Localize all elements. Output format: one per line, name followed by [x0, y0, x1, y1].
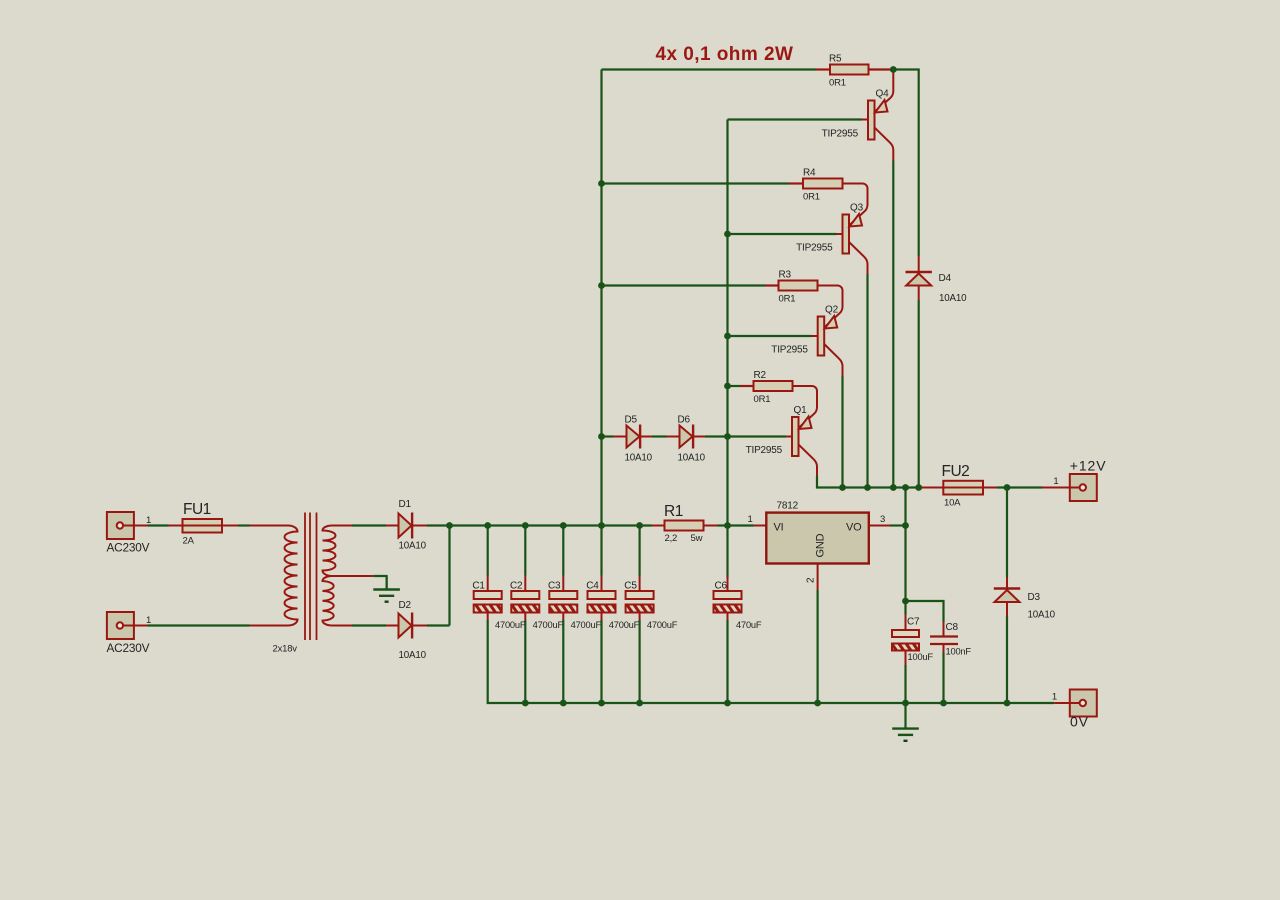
wire C5 lower [638, 620, 640, 703]
junction at (1007,487.5) [1004, 484, 1011, 491]
svg-text:1: 1 [146, 515, 151, 526]
capacitor C6 470uF [714, 581, 762, 631]
wire transformer primary bottom pin [250, 625, 289, 627]
wire C3 lower [562, 620, 564, 703]
wire C2 upper [524, 526, 526, 576]
transistor Q4 TIP2955 [822, 89, 889, 140]
svg-text:D2: D2 [399, 600, 412, 611]
wire Q1 collector to output bus [817, 476, 921, 488]
wire Q3 emitter [0, 0, 1, 1]
svg-text:C6: C6 [715, 581, 728, 592]
capacitor C3 4700uF [548, 581, 601, 631]
svg-text:Q1: Q1 [794, 405, 808, 416]
svg-text:AC230V: AC230V [107, 541, 150, 555]
svg-text:Q2: Q2 [825, 305, 839, 316]
svg-text:2,2: 2,2 [665, 533, 678, 544]
svg-text:C3: C3 [548, 581, 561, 592]
svg-text:D4: D4 [939, 273, 952, 284]
svg-text:VI: VI [774, 522, 784, 534]
wire D3 pins [1006, 577, 1008, 617]
junction at (601.5,183.5) [598, 180, 605, 187]
junction at (449.5,525.5) [446, 522, 453, 529]
wire +12V terminal pin [1042, 487, 1070, 489]
wire Q1 collector [799, 445, 818, 477]
transistor Q1 TIP2955 [746, 405, 812, 456]
wire C4 lower [600, 620, 602, 703]
svg-text:C8: C8 [946, 622, 959, 633]
svg-text:100uF: 100uF [908, 652, 934, 662]
wire D1 cathode to bus [427, 524, 450, 526]
wire C3 upper [562, 526, 564, 576]
wire R1 output to 7812 VI [718, 524, 754, 526]
svg-text:GND: GND [815, 533, 827, 557]
svg-text:10A10: 10A10 [399, 650, 427, 661]
wire R3 pins [765, 286, 843, 328]
diode D6 [678, 415, 706, 464]
wire 7812 VI pin [754, 525, 767, 527]
svg-text:10A10: 10A10 [399, 541, 427, 552]
wire main input bus [450, 524, 652, 526]
junction at (525.3,703) [522, 700, 529, 707]
capacitor C7 100uF [892, 617, 933, 663]
junction at (601.5,436.5) [598, 433, 605, 440]
junction at (905.5,601) [902, 598, 909, 605]
wire FU1 pins [169, 525, 239, 527]
junction at (842.5,487.5) [839, 484, 846, 491]
wire D6 to Q1 base [705, 435, 786, 437]
wire raw-input vertical x=601.5 [600, 70, 602, 526]
junction at (563.3,525.5) [560, 522, 567, 529]
wire C5 pins [639, 576, 641, 621]
wire top rail net (R5 input rail) [602, 68, 817, 70]
wire D5 pins [614, 436, 653, 438]
terminal +12V [1053, 458, 1106, 502]
wire rectifier vertical [448, 526, 450, 626]
junction at (727.5,436.5) [724, 433, 731, 440]
wire AC2 terminal pin [134, 625, 148, 627]
junction at (639.6,703) [636, 700, 643, 707]
wire C1 upper [487, 526, 489, 576]
wire AC2 to transformer [148, 624, 250, 626]
junction at (905.5,487.5) [902, 484, 909, 491]
wire 7812 GND pin [817, 564, 819, 591]
wire Q3 base [728, 233, 837, 235]
wire C6 pins [727, 576, 729, 621]
wire Q4 base pin [862, 119, 868, 121]
wire C2 pins [524, 576, 526, 621]
junction at (727.5,234) [724, 231, 731, 238]
svg-text:D5: D5 [625, 415, 638, 426]
wire Q2 base [728, 335, 812, 337]
wire base rail vertical x=727.5 [726, 120, 728, 526]
wire ground bus bottom [488, 620, 1055, 703]
svg-text:R5: R5 [829, 54, 842, 65]
diode D3 [994, 589, 1056, 621]
junction at (867.5,487.5) [864, 484, 871, 491]
transformer TR1 2x18v [273, 513, 336, 655]
junction at (918.7,487.5) [915, 484, 922, 491]
wire R3 input [602, 284, 766, 286]
wire secondary bottom to D2 [352, 624, 386, 626]
wire FU1 to transformer [238, 524, 250, 526]
junction at (893.3,487.5) [890, 484, 897, 491]
wire C5 upper [638, 526, 640, 576]
svg-text:D6: D6 [678, 415, 691, 426]
svg-text:1: 1 [146, 615, 151, 626]
svg-text:1: 1 [748, 514, 753, 525]
svg-text:10A: 10A [944, 498, 961, 509]
terminal AC230V bottom [107, 612, 152, 655]
terminal AC230V top [107, 512, 152, 555]
svg-text:10A10: 10A10 [1028, 610, 1056, 621]
wire C3 pins [562, 576, 564, 621]
wire D5-D6 link [652, 435, 667, 437]
wire C1 pins [487, 576, 489, 621]
junction at (727.5,703) [724, 700, 731, 707]
resistor R1 [664, 503, 704, 544]
fuse FU1 [183, 501, 223, 547]
svg-text:100nF: 100nF [946, 647, 972, 657]
svg-text:FU1: FU1 [183, 501, 211, 518]
junction at (601.5,703) [598, 700, 605, 707]
svg-text:4700uF: 4700uF [495, 620, 526, 630]
wire 0V terminal pin [1054, 702, 1070, 704]
wire Q1 base pin [786, 436, 792, 438]
wire D1 pins [386, 525, 427, 527]
svg-text:2: 2 [806, 577, 817, 583]
wire R4 pins [789, 184, 868, 226]
transistor Q2 TIP2955 [771, 305, 838, 356]
wire D4 cathode rail down [918, 300, 920, 488]
svg-text:R2: R2 [754, 370, 767, 381]
svg-text:1: 1 [1052, 692, 1057, 703]
svg-text:2x18v: 2x18v [273, 644, 298, 655]
svg-text:Q3: Q3 [850, 203, 864, 214]
svg-text:C4: C4 [586, 581, 599, 592]
wire C8 lower [942, 653, 944, 704]
svg-text:C2: C2 [510, 581, 523, 592]
wire D3 lower [1006, 617, 1008, 704]
svg-text:D3: D3 [1028, 592, 1041, 603]
resistor R3 [779, 270, 818, 305]
svg-text:D1: D1 [399, 499, 412, 510]
wire 7812 VO to output node [890, 524, 906, 526]
wire Q1 emitter [0, 0, 1, 1]
svg-text:FU2: FU2 [942, 463, 970, 480]
svg-text:0R1: 0R1 [829, 78, 846, 89]
regulator U1 7812 [748, 501, 886, 584]
junction at (727.5,386) [724, 383, 731, 390]
wire transformer primary top pin [250, 525, 289, 527]
junction at (563.3,703) [560, 700, 567, 707]
wire R4 input [602, 182, 790, 184]
resistor R2 [754, 370, 793, 405]
capacitor C5 4700uF [624, 581, 677, 631]
diode D2 [399, 600, 427, 661]
wire Q3 collector [849, 242, 868, 274]
junction at (727.5,336) [724, 333, 731, 340]
svg-text:1: 1 [1053, 476, 1058, 487]
wire C7 lower [904, 665, 906, 703]
junction at (487.7,525.5) [484, 522, 491, 529]
junction at (1007,703) [1004, 700, 1011, 707]
resistor R5 [829, 54, 869, 89]
wire AC1 link [148, 524, 169, 526]
wire Q4 base [728, 118, 863, 120]
capacitor C1 4700uF [472, 581, 525, 631]
wire C2 lower [524, 620, 526, 703]
wire C7-C8 jumper [906, 601, 944, 622]
svg-text:VO: VO [846, 522, 862, 534]
diode D4 [906, 272, 968, 304]
svg-text:0R1: 0R1 [779, 294, 796, 305]
svg-text:C1: C1 [472, 581, 485, 592]
ground main [892, 703, 919, 741]
svg-text:4x 0,1 ohm 2W: 4x 0,1 ohm 2W [656, 44, 794, 65]
wire FU2 to +12V terminal [997, 486, 1042, 488]
title text 4x 0,1 ohm 2W [656, 44, 794, 65]
svg-text:7812: 7812 [777, 501, 799, 512]
wire D5 anode [602, 435, 614, 437]
junction at (525.3,525.5) [522, 522, 529, 529]
wire Q2 collector [824, 344, 842, 376]
junction at (893.3,69.5) [890, 66, 897, 73]
svg-text:R3: R3 [779, 270, 792, 281]
svg-text:4700uF: 4700uF [571, 620, 602, 630]
diode D5 [625, 415, 653, 464]
fuse FU2 [942, 463, 984, 509]
svg-text:0R1: 0R1 [803, 192, 820, 203]
wire R5 output to corner [893, 70, 918, 257]
svg-text:C5: C5 [624, 581, 637, 592]
wire 7812 VO pin [869, 525, 890, 527]
wire R2 input [728, 385, 741, 387]
junction at (639.6,525.5) [636, 522, 643, 529]
resistor R4 [803, 168, 843, 203]
svg-text:+12V: +12V [1070, 458, 1107, 474]
wire R2 pins [740, 386, 817, 428]
svg-text:TIP2955: TIP2955 [822, 129, 859, 140]
wire C6 upper [726, 526, 728, 579]
svg-text:Q4: Q4 [876, 89, 890, 100]
wire Q2 base pin [812, 335, 818, 337]
svg-text:TIP2955: TIP2955 [796, 243, 833, 254]
wire 7812 GND lower [816, 590, 818, 703]
svg-text:4700uF: 4700uF [533, 620, 564, 630]
wire output vertical x=905.5 [904, 488, 906, 615]
svg-text:4700uF: 4700uF [647, 620, 678, 630]
junction at (601.5,285.5) [598, 282, 605, 289]
svg-text:4700uF: 4700uF [609, 620, 640, 630]
svg-text:470uF: 470uF [736, 620, 762, 630]
wire secondary top to D1 [352, 524, 386, 526]
svg-text:10A10: 10A10 [678, 453, 706, 464]
wire Q3 base pin [837, 233, 843, 235]
wire R1 pins [652, 525, 718, 527]
junction at (943.5,703) [940, 700, 947, 707]
junction at (905.5,525.5) [902, 522, 909, 529]
svg-text:R1: R1 [664, 503, 683, 520]
wire D3 upper [1006, 488, 1008, 578]
wire transformer secondary bottom pin [331, 625, 352, 627]
wire D2 pins [386, 625, 427, 627]
wire transformer center tap pin [331, 575, 373, 577]
wire Q4 emitter [875, 70, 894, 112]
wire Q3 collector down [866, 274, 868, 488]
wire Q4 collector down [892, 161, 894, 488]
wire C7 pins [905, 615, 907, 666]
junction at (601.5,525.5) [598, 522, 605, 529]
junction at (817.6,703) [814, 700, 821, 707]
capacitor C2 4700uF [510, 581, 563, 631]
svg-text:10A10: 10A10 [939, 293, 967, 304]
wire C4 upper [600, 526, 602, 576]
wire Q2 collector down [841, 376, 843, 488]
wire Q4 collector [875, 128, 894, 161]
svg-text:0R1: 0R1 [754, 394, 771, 405]
transistor Q3 TIP2955 [796, 203, 863, 254]
svg-text:AC230V: AC230V [107, 641, 150, 655]
capacitor C4 4700uF [586, 581, 639, 631]
ground center-tap [373, 577, 400, 602]
junction at (905.5,703) [902, 700, 909, 707]
wire center tap to ground [373, 576, 386, 588]
junction at (727.5,525.5) [724, 522, 731, 529]
svg-text:2A: 2A [183, 536, 195, 547]
svg-text:TIP2955: TIP2955 [771, 345, 808, 356]
wire D2 cathode to corner [427, 624, 450, 626]
svg-text:5w: 5w [691, 533, 703, 544]
terminal 0V [1052, 690, 1097, 730]
wire D6 pins [667, 436, 706, 438]
svg-text:R4: R4 [803, 168, 816, 179]
wire C8 pins [943, 622, 945, 653]
wire R5 pins [816, 68, 893, 70]
wire C4 pins [601, 576, 603, 621]
wire D4 pins [918, 256, 920, 300]
svg-text:10A10: 10A10 [625, 453, 653, 464]
svg-text:0V: 0V [1070, 714, 1089, 730]
wire Q2 emitter [0, 0, 1, 1]
diode D1 [399, 499, 427, 552]
wire FU2 pins [921, 487, 997, 489]
wire C6 lower [726, 620, 728, 703]
wire transformer secondary top pin [331, 525, 352, 527]
svg-text:C7: C7 [907, 617, 920, 628]
svg-text:3: 3 [880, 514, 885, 525]
wire AC1 terminal pin [134, 525, 148, 527]
capacitor C8 100nF [930, 622, 971, 657]
svg-text:TIP2955: TIP2955 [746, 445, 783, 456]
